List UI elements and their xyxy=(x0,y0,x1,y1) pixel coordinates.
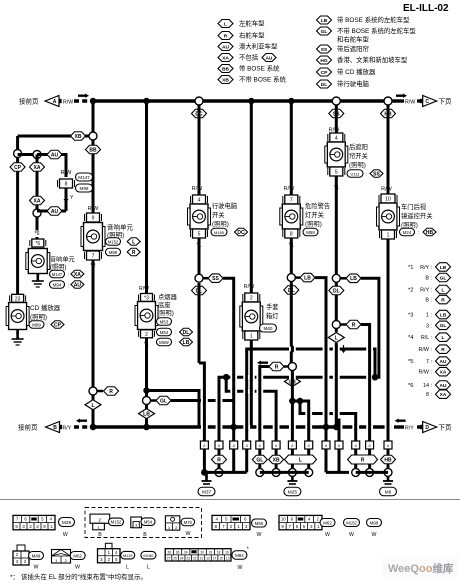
svg-text:EL-ILL-02: EL-ILL-02 xyxy=(403,3,449,14)
svg-text:XA: XA xyxy=(74,272,81,278)
svg-text:22: 22 xyxy=(193,557,197,561)
svg-text:L: L xyxy=(132,239,135,245)
svg-text:8 :: 8 : xyxy=(426,392,432,398)
svg-text:M147: M147 xyxy=(52,272,63,277)
svg-text:1 :: 1 : xyxy=(426,313,432,319)
svg-text:R/W: R/W xyxy=(88,206,100,212)
svg-text:M94: M94 xyxy=(53,282,62,287)
svg-text:W: W xyxy=(349,532,354,538)
svg-text:DL: DL xyxy=(333,288,340,294)
svg-text:LB: LB xyxy=(321,18,328,24)
svg-text:R: R xyxy=(109,389,113,395)
svg-text:M94: M94 xyxy=(235,553,244,558)
svg-text:带 BOSE 系统: 带 BOSE 系统 xyxy=(239,64,280,73)
svg-text:U111: U111 xyxy=(351,171,361,176)
svg-text:7 :: 7 : xyxy=(426,359,432,365)
svg-text:5: 5 xyxy=(198,232,201,238)
svg-text:R: R xyxy=(352,322,356,328)
svg-text:8: 8 xyxy=(65,182,68,188)
svg-text:*6: *6 xyxy=(35,241,40,247)
svg-text:R/Y: R/Y xyxy=(405,426,414,432)
svg-text:27: 27 xyxy=(167,557,171,561)
svg-text::: : xyxy=(230,230,231,235)
svg-text:10: 10 xyxy=(385,197,391,203)
svg-text:24: 24 xyxy=(184,550,188,554)
svg-text:*3: *3 xyxy=(408,313,413,319)
svg-text:25: 25 xyxy=(173,557,177,561)
svg-text:行驶电脑: 行驶电脑 xyxy=(212,201,237,210)
svg-text:M62: M62 xyxy=(73,553,82,558)
svg-text:L: L xyxy=(442,335,445,341)
svg-text:M98: M98 xyxy=(109,250,118,255)
svg-text:SS: SS xyxy=(321,47,328,53)
svg-text:R: R xyxy=(132,250,136,256)
svg-text:23: 23 xyxy=(15,296,21,302)
svg-text:R/W: R/W xyxy=(244,284,256,290)
svg-text:音响单元: 音响单元 xyxy=(107,223,134,232)
svg-text::: : xyxy=(68,272,69,277)
svg-text:L: L xyxy=(91,403,94,409)
svg-text:M54: M54 xyxy=(144,520,153,525)
svg-text::: : xyxy=(47,323,48,328)
svg-text::: : xyxy=(175,330,176,335)
svg-text:*3: *3 xyxy=(144,296,149,302)
svg-text:M147: M147 xyxy=(78,175,90,180)
svg-text:XA: XA xyxy=(34,198,41,204)
svg-text:灯开关: 灯开关 xyxy=(305,210,325,219)
svg-text:7: 7 xyxy=(92,254,95,260)
svg-text:19: 19 xyxy=(209,550,213,554)
svg-text:带 BOSE 系统的左舵车型: 带 BOSE 系统的左舵车型 xyxy=(337,15,410,24)
svg-text:*4: *4 xyxy=(408,335,414,341)
svg-text:接前页: 接前页 xyxy=(19,97,39,106)
svg-text:*6: *6 xyxy=(34,231,39,237)
svg-text:M75: M75 xyxy=(184,520,193,525)
svg-text:AU: AU xyxy=(440,383,447,389)
svg-text:BB: BB xyxy=(222,66,229,72)
svg-text:R/Y: R/Y xyxy=(63,426,72,432)
svg-text:R: R xyxy=(275,364,279,370)
svg-text:后遮阳: 后遮阳 xyxy=(349,142,368,151)
svg-text:7: 7 xyxy=(290,198,293,204)
svg-text:底座: 底座 xyxy=(158,300,171,309)
svg-text:GL: GL xyxy=(321,29,328,35)
svg-text:28: 28 xyxy=(168,550,172,554)
svg-text:*2: *2 xyxy=(408,288,413,294)
svg-text:L: L xyxy=(224,21,227,27)
svg-text:M152: M152 xyxy=(346,520,357,525)
svg-text:危险警告: 危险警告 xyxy=(305,201,330,210)
svg-text:A: A xyxy=(53,99,57,105)
svg-text:M152: M152 xyxy=(108,239,119,244)
svg-text:帘开关: 帘开关 xyxy=(349,151,369,160)
svg-text:B: B xyxy=(143,532,147,538)
svg-text:R/Y :: R/Y : xyxy=(420,265,432,271)
svg-text:16: 16 xyxy=(225,550,229,554)
svg-text:R/W :: R/W : xyxy=(419,370,432,376)
svg-text:SS: SS xyxy=(212,276,219,282)
svg-text:W: W xyxy=(372,532,377,538)
svg-text:开关: 开关 xyxy=(212,210,225,219)
svg-text:LB: LB xyxy=(440,313,447,319)
svg-text:R: R xyxy=(441,298,445,304)
svg-text:M37: M37 xyxy=(202,489,212,495)
svg-text:M24: M24 xyxy=(403,230,412,235)
svg-text:GL: GL xyxy=(256,457,263,463)
svg-text:*6: *6 xyxy=(408,383,413,389)
svg-text:M62: M62 xyxy=(323,520,332,525)
svg-text:GL: GL xyxy=(440,323,447,329)
svg-text:L: L xyxy=(299,457,302,463)
svg-text:M152: M152 xyxy=(111,520,122,525)
svg-text:DL: DL xyxy=(183,330,190,336)
svg-text:不包括: 不包括 xyxy=(239,53,259,62)
svg-text:XA: XA xyxy=(222,55,229,61)
svg-text:箱灯: 箱灯 xyxy=(266,311,279,320)
svg-text:M49: M49 xyxy=(32,553,41,558)
svg-text:XB: XB xyxy=(75,134,82,140)
svg-text:HB: HB xyxy=(426,230,434,236)
svg-text:M54: M54 xyxy=(160,330,169,335)
svg-text:15: 15 xyxy=(219,557,223,561)
svg-text:下页: 下页 xyxy=(439,424,453,432)
svg-text:澳大利亚车型: 澳大利亚车型 xyxy=(239,42,278,51)
svg-text:M115: M115 xyxy=(123,553,133,558)
svg-text:(照明): (照明) xyxy=(157,309,174,317)
svg-text:WeeQoo维库: WeeQoo维库 xyxy=(388,562,454,575)
svg-text:R: R xyxy=(224,33,228,39)
svg-text:BB: BB xyxy=(89,147,97,153)
svg-text:10: 10 xyxy=(281,517,286,522)
svg-text:左舵车型: 左舵车型 xyxy=(239,19,265,28)
svg-text:4: 4 xyxy=(198,198,201,204)
svg-text:带 CD 播放器: 带 CD 播放器 xyxy=(337,67,376,76)
svg-text:右舵车型: 右舵车型 xyxy=(239,31,265,40)
svg-text:M180: M180 xyxy=(143,553,154,558)
svg-text:W: W xyxy=(186,531,191,537)
svg-text:26: 26 xyxy=(176,550,180,554)
svg-text:2: 2 xyxy=(145,332,148,338)
svg-text:20: 20 xyxy=(200,550,204,554)
svg-text:下页: 下页 xyxy=(439,98,453,106)
svg-text:CP: CP xyxy=(54,322,62,328)
svg-text:DC: DC xyxy=(237,230,245,236)
svg-text:带行驶电脑: 带行驶电脑 xyxy=(337,79,370,88)
svg-text:M9: M9 xyxy=(385,489,392,495)
svg-text:SS: SS xyxy=(373,171,380,177)
svg-text:(照明): (照明) xyxy=(305,220,322,228)
svg-text:镜遥控开关: 镜遥控开关 xyxy=(401,211,433,220)
svg-text:B: B xyxy=(53,425,57,431)
svg-text:W: W xyxy=(34,565,39,571)
svg-text:不带 BOSE 系统的左舵车型: 不带 BOSE 系统的左舵车型 xyxy=(337,26,416,35)
svg-text:*： 该插头在 EL 部分的“线束布置”中均有显示。: *： 该插头在 EL 部分的“线束布置”中均有显示。 xyxy=(10,572,147,581)
svg-text:9: 9 xyxy=(92,216,95,222)
svg-text:R: R xyxy=(217,457,221,463)
svg-text:*5: *5 xyxy=(408,359,413,365)
svg-text:R/W: R/W xyxy=(63,100,73,106)
svg-text:HG: HG xyxy=(320,58,327,64)
svg-text:XA: XA xyxy=(440,370,447,376)
svg-text:香港、文莱和新加坡车型: 香港、文莱和新加坡车型 xyxy=(337,55,408,64)
svg-text:L: L xyxy=(126,565,129,571)
svg-text:M29: M29 xyxy=(62,520,72,526)
svg-text:M58: M58 xyxy=(306,230,315,235)
svg-text:R/W: R/W xyxy=(139,286,149,292)
svg-text:车门后视: 车门后视 xyxy=(401,202,427,211)
svg-text:5: 5 xyxy=(335,170,338,176)
svg-text:R/L :: R/L : xyxy=(421,335,432,341)
svg-text:13: 13 xyxy=(226,557,230,561)
svg-text:R/Y :: R/Y : xyxy=(420,288,432,294)
svg-text:LB: LB xyxy=(350,276,357,282)
svg-text:AU: AU xyxy=(51,209,59,215)
svg-text:XB: XB xyxy=(273,457,280,463)
svg-text:R/W: R/W xyxy=(381,187,393,193)
svg-text:LB: LB xyxy=(143,412,150,418)
svg-text:带后遮阳帘: 带后遮阳帘 xyxy=(337,44,369,53)
svg-text:18: 18 xyxy=(217,550,221,554)
svg-text:C: C xyxy=(425,99,429,105)
svg-text:W: W xyxy=(325,532,330,538)
svg-text:CD 播放器: CD 播放器 xyxy=(30,303,61,312)
svg-text:1: 1 xyxy=(250,334,253,340)
svg-text:DL: DL xyxy=(321,82,327,88)
svg-text:AU: AU xyxy=(440,359,447,365)
svg-text:和右舵车型: 和右舵车型 xyxy=(337,35,370,44)
svg-text:17: 17 xyxy=(213,557,217,561)
svg-text:M98: M98 xyxy=(80,186,89,191)
svg-text:M185: M185 xyxy=(214,230,225,235)
svg-text:(照明): (照明) xyxy=(212,220,229,228)
svg-text::: : xyxy=(366,172,367,177)
svg-text:不带 BOSE 系统: 不带 BOSE 系统 xyxy=(239,75,286,84)
svg-text:W: W xyxy=(257,532,262,538)
svg-text:12: 12 xyxy=(206,557,210,561)
svg-text:LB: LB xyxy=(440,265,447,271)
svg-text:W: W xyxy=(63,532,68,538)
svg-text:(照明): (照明) xyxy=(30,313,47,321)
svg-text:(照明): (照明) xyxy=(349,161,366,169)
svg-text:R/W: R/W xyxy=(284,186,296,192)
svg-text:GL: GL xyxy=(440,275,447,281)
svg-text:XA: XA xyxy=(34,165,41,171)
svg-text:L: L xyxy=(147,565,150,571)
svg-text:R: R xyxy=(361,457,365,463)
svg-text:R: R xyxy=(441,347,445,353)
svg-text:W: W xyxy=(238,565,243,571)
svg-text:M5W: M5W xyxy=(159,340,169,345)
svg-text:R/W :: R/W : xyxy=(419,347,432,353)
svg-text:手套: 手套 xyxy=(266,302,279,311)
svg-text:AU: AU xyxy=(74,282,82,288)
svg-text:4: 4 xyxy=(335,136,338,142)
svg-text:M25: M25 xyxy=(288,489,298,495)
svg-text:B :: B : xyxy=(425,298,432,304)
svg-text:M99: M99 xyxy=(32,322,41,327)
svg-text:CP: CP xyxy=(14,165,22,171)
svg-text:AU: AU xyxy=(222,44,229,50)
svg-text:LB: LB xyxy=(304,276,311,282)
svg-text:AU: AU xyxy=(51,152,59,158)
svg-text:M98: M98 xyxy=(370,520,379,525)
svg-text:W: W xyxy=(75,565,80,571)
svg-text:1: 1 xyxy=(387,233,390,239)
svg-text::: : xyxy=(68,283,69,288)
svg-text:B: B xyxy=(98,532,102,538)
svg-text:L: L xyxy=(442,287,445,293)
svg-text:14 :: 14 : xyxy=(423,383,432,389)
svg-text:2: 2 xyxy=(250,296,253,302)
svg-text:AU: AU xyxy=(266,55,273,60)
svg-text:XB: XB xyxy=(222,77,229,83)
svg-text::: : xyxy=(175,340,176,345)
svg-text:LB: LB xyxy=(183,340,190,346)
svg-text:CP: CP xyxy=(321,70,328,76)
svg-text:B :: B : xyxy=(425,276,432,282)
svg-text:*1: *1 xyxy=(408,265,413,271)
svg-text:M60: M60 xyxy=(264,326,273,331)
svg-text:音响单元: 音响单元 xyxy=(50,256,75,264)
svg-text:8: 8 xyxy=(290,232,293,238)
svg-text:21: 21 xyxy=(200,557,204,561)
svg-text:23: 23 xyxy=(186,557,190,561)
svg-text:R/W: R/W xyxy=(61,170,73,176)
svg-text:R/W: R/W xyxy=(192,186,204,192)
svg-text:L: L xyxy=(335,336,338,342)
svg-text:HB: HB xyxy=(384,457,392,463)
svg-text:GL: GL xyxy=(160,398,167,404)
svg-text:XA: XA xyxy=(440,392,447,398)
svg-text::: : xyxy=(418,230,419,235)
svg-text:3 :: 3 : xyxy=(426,323,432,329)
svg-text:M53: M53 xyxy=(160,319,169,324)
svg-text:24: 24 xyxy=(180,557,184,561)
svg-text:接前页: 接前页 xyxy=(18,423,38,432)
svg-text:点烟器: 点烟器 xyxy=(158,292,178,301)
svg-text:D: D xyxy=(425,425,429,431)
svg-text:R/W: R/W xyxy=(405,100,415,106)
svg-text:M55: M55 xyxy=(255,521,264,526)
